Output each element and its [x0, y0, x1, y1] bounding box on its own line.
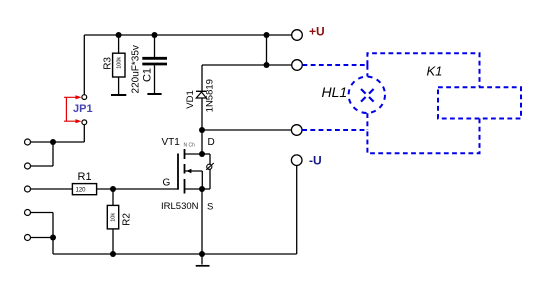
svg-text:R2: R2: [122, 213, 133, 226]
ground bar under C1: [147, 93, 161, 95]
svg-text:VD1: VD1: [185, 90, 196, 108]
svg-text:R1: R1: [78, 171, 92, 183]
junction dot R1-R2: [110, 186, 116, 192]
svg-text:S: S: [207, 201, 213, 212]
dashed loop rectangle: [367, 53, 479, 153]
junction dot VD1 row: [264, 62, 270, 68]
transistor VT1: [161, 137, 215, 212]
resistor R2: [107, 189, 132, 254]
jumper JP1: [64, 95, 93, 125]
junction dot rail-R3: [116, 32, 122, 38]
wire top +U rail: [84, 34, 291, 36]
wire drain node row: [202, 129, 291, 131]
wire JP1 top drop: [83, 35, 85, 95]
junction dot rail-C1: [152, 32, 158, 38]
svg-text:120: 120: [76, 188, 87, 194]
wire bottom rail: [53, 253, 297, 255]
wire A-B vertical: [52, 142, 54, 166]
wire vertical +U to VD1 row: [266, 35, 268, 65]
svg-text:1N5819: 1N5819: [205, 79, 216, 112]
svg-text:C1: C1: [142, 68, 154, 82]
svg-text:VT1: VT1: [162, 137, 181, 148]
junction dot A-B: [50, 139, 56, 145]
svg-text:220uF*35v: 220uF*35v: [130, 45, 141, 93]
svg-text:-U: -U: [309, 153, 322, 167]
wire VD1 top row: [202, 64, 292, 66]
wire drain vertical: [201, 130, 203, 154]
diode VD1: [185, 65, 216, 130]
svg-text:K1: K1: [427, 64, 443, 79]
wire R1 to gate: [97, 188, 178, 190]
wire terminal D row: [31, 212, 54, 214]
wire terminal C row: [31, 188, 73, 190]
wire JP1 bottom drop: [83, 125, 85, 142]
svg-text:G: G: [163, 178, 171, 189]
wire D-E vertical: [52, 213, 54, 255]
capacitor C1: [130, 35, 167, 93]
junction dot drain node: [199, 127, 205, 133]
resistor R3: [103, 35, 125, 94]
ground bar under R3: [111, 94, 126, 96]
svg-text:IRL530N: IRL530N: [161, 201, 199, 212]
junction dot gnd-bottom: [199, 251, 205, 257]
terminal -U: [291, 155, 302, 166]
terminal D: [25, 210, 31, 216]
junction dot source: [199, 186, 205, 192]
wire terminal E row: [31, 237, 54, 239]
svg-text:+U: +U: [309, 25, 325, 39]
svg-text:10k: 10k: [111, 213, 117, 222]
terminal E: [25, 235, 31, 241]
junction dot D-E: [50, 235, 56, 241]
ground: [196, 254, 210, 266]
terminal +U: [292, 30, 303, 41]
terminal B: [25, 163, 31, 169]
svg-text:N Ch: N Ch: [184, 143, 196, 149]
junction dot drain: [199, 151, 205, 157]
terminal C: [25, 186, 31, 192]
relay coil K1: [438, 87, 521, 118]
lamp HL1: [349, 77, 385, 113]
svg-text:JP1: JP1: [73, 103, 93, 115]
terminal drain out: [291, 125, 302, 136]
svg-text:100k: 100k: [116, 57, 122, 69]
wire source vertical: [201, 189, 203, 254]
wire terminal A row: [31, 141, 85, 143]
dashed wire +U to lamp: [303, 64, 368, 66]
junction dot rail-right: [264, 32, 270, 38]
junction dot R2-bottom: [110, 251, 116, 257]
terminal A: [25, 139, 31, 145]
wire -U vertical: [296, 166, 298, 254]
svg-text:R3: R3: [103, 57, 114, 70]
svg-text:HL1: HL1: [322, 84, 348, 100]
svg-text:D: D: [208, 137, 215, 148]
wire terminal B row: [31, 165, 54, 167]
dashed wire drain to lamp bottom: [302, 129, 367, 131]
terminal lamp feed: [292, 60, 303, 71]
resistor R1: [72, 171, 96, 195]
